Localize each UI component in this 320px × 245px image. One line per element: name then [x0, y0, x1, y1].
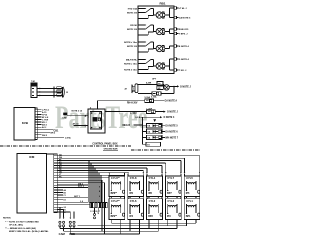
svg-text:BP2**: BP2** [111, 215, 118, 218]
breaker MR [157, 86, 164, 90]
KVB pin 1 [35, 108, 37, 110]
svg-text:BP1: BP1 [186, 215, 191, 218]
module outer box [88, 109, 105, 133]
wire drop [167, 219, 169, 225]
wire relay4 to pin [165, 48, 170, 50]
wire ladder 7 [57, 169, 143, 171]
svg-text:GA NOTE 5: GA NOTE 5 [165, 125, 178, 128]
lamp M1 [164, 85, 169, 90]
wire relay1 to pin [165, 14, 170, 16]
wire bottom path [138, 93, 152, 95]
svg-text:GA NOTE 6: GA NOTE 6 [179, 17, 191, 20]
wire ICM to CAM b [57, 209, 63, 211]
ICM stub D3 [57, 199, 63, 201]
bus wire B [57, 182, 104, 184]
screw [99, 112, 101, 114]
wire relay3 to pin [165, 31, 170, 33]
svg-text:A2 J: A2 J [42, 126, 46, 129]
wire arrow row2 [164, 111, 166, 113]
svg-text:** — BREAK AVG 2s AND (AN): ** — BREAK AVG 2s AND (AN) [5, 227, 36, 230]
wire ladder 2 [57, 157, 184, 159]
ICM wire MA 5 [57, 184, 88, 186]
svg-text:CYL8: CYL8 [130, 176, 137, 180]
svg-text:WH NOTE 7: WH NOTE 7 [165, 137, 178, 139]
pin P2 [174, 16, 177, 18]
svg-text:HYD 10A: HYD 10A [128, 7, 138, 10]
plug column 2 [129, 197, 131, 199]
KVB pin 2 [35, 111, 37, 113]
svg-text:OF (CB. JAN).: OF (CB. JAN). [9, 223, 24, 226]
svg-text:CIR 5K: CIR 5K [130, 25, 138, 27]
module feed connector [63, 113, 67, 116]
ICM pin 1 [54, 155, 57, 157]
plug column 3 [148, 197, 150, 199]
svg-text:T BPS. J: T BPS. J [179, 34, 188, 36]
wire ICM to CBB a [57, 211, 70, 213]
wire bottom bus 1 [111, 222, 196, 224]
wire lamp out [169, 85, 174, 87]
wire drop [120, 219, 122, 234]
module wire L2 [73, 125, 88, 127]
wire CBB b feed [57, 211, 74, 213]
wire diode feed [143, 116, 160, 118]
svg-text:GA NOTE A: GA NOTE A [165, 100, 178, 103]
KVB pin 7 [35, 124, 37, 126]
KVB pin 5 [35, 119, 37, 121]
connector CBB [69, 213, 71, 217]
KVB pin 9 [35, 129, 37, 131]
wire drop [157, 219, 159, 231]
svg-text:D3: D3 [64, 200, 66, 202]
wire feed strip 1 [88, 161, 90, 203]
svg-text:NOTES:: NOTES: [3, 218, 11, 220]
wire jog [163, 83, 164, 85]
wire ladder 3 [57, 160, 181, 162]
ICM pin 15 [54, 189, 57, 191]
wire ladder 10 [57, 177, 109, 179]
module inner box [90, 112, 101, 130]
module core [93, 117, 98, 121]
ICM pin 3 [54, 160, 57, 162]
wire feed strip 3 [92, 166, 94, 203]
ICM wire FCC 1 [57, 187, 88, 189]
diode D1 [143, 125, 147, 127]
boundary dash left [0, 145, 131, 147]
wire relay0 to pin [165, 14, 170, 16]
ICM wire NOT 1 [57, 196, 88, 198]
svg-text:J- 53V: J- 53V [130, 113, 137, 115]
svg-text:NOTE b 10m: NOTE b 10m [124, 63, 137, 65]
boundary dash right [131, 149, 200, 151]
fuse S-30A [152, 92, 161, 96]
wire drop [110, 219, 112, 223]
svg-text:B NOTE 4: B NOTE 4 [179, 45, 190, 48]
fuse F-OPT [157, 82, 163, 85]
solenoid CYL2 [147, 199, 163, 220]
svg-text:NOTE 3 14: NOTE 3 14 [72, 110, 83, 113]
connector P2 circles [94, 208, 96, 214]
screw [99, 127, 101, 129]
ICM pin 7 [54, 169, 57, 171]
svg-text:CYL2: CYL2 [149, 199, 156, 203]
module top pin B [96, 101, 98, 109]
svg-text:KVB: KVB [22, 121, 28, 125]
wire feed strip 2 [90, 163, 92, 202]
wire bottom bus 3 [60, 228, 177, 230]
svg-text:J2: J2 [66, 92, 68, 94]
wire bottom bus 2 [78, 225, 187, 227]
ICM pin 22 [54, 206, 57, 208]
connector block C.RD [31, 83, 37, 98]
bus wire A [57, 179, 102, 181]
connector J1 wires [37, 88, 62, 90]
ICM pin 6 [54, 167, 57, 169]
wire drop [195, 219, 197, 223]
ICM pin 4 [54, 162, 57, 164]
svg-text:AT.1 4: AT.1 4 [73, 122, 80, 125]
wire drop [176, 219, 178, 228]
plug column 4 [167, 197, 169, 199]
diode D2 [143, 131, 147, 133]
ICM pin 11 [54, 179, 57, 181]
svg-text:18: 18 [57, 89, 59, 91]
svg-text:4: 4 [99, 190, 100, 193]
svg-text:GA NOTE 6: GA NOTE 6 [165, 131, 178, 134]
svg-text:5-30A: 5-30A [151, 96, 157, 99]
solenoid CYL3 [165, 199, 181, 220]
screw [91, 112, 93, 114]
svg-text:NOT 1: NOT 1 [74, 196, 81, 198]
bus vertical [142, 117, 144, 144]
wire relay6 to pin [165, 65, 170, 67]
svg-text:J (P4): J (P4) [65, 136, 71, 139]
screw [91, 127, 93, 129]
pin P4 [174, 32, 177, 34]
wire feed strip 6 [98, 173, 100, 203]
svg-text:T NO. J: T NO. J [179, 70, 187, 72]
svg-text:MAJYN RL: MAJYN RL [126, 58, 138, 61]
svg-text:2: 2 [99, 186, 100, 188]
svg-text:CYL6**: CYL6** [111, 176, 120, 180]
svg-text:C.RD: C.RD [62, 117, 67, 119]
svg-text:* — NOTE 2 IS NOT CONNECTED: * — NOTE 2 IS NOT CONNECTED [5, 221, 39, 223]
wire CBB p1 to bus [69, 229, 71, 234]
wire drop [139, 219, 141, 234]
relay K3 [138, 41, 165, 52]
wire bottom bus 4 [64, 230, 159, 232]
ICM stub A4 [57, 189, 63, 191]
wire relay2 to pin [165, 31, 170, 33]
wire ladder 8 [57, 172, 128, 174]
wire ladder 5 [57, 165, 162, 167]
wire drop [148, 219, 150, 228]
pin P3 [174, 28, 177, 30]
svg-text:CYL1: CYL1 [186, 199, 193, 203]
connector oval J3 [135, 84, 138, 93]
ICM pin 24 [54, 211, 57, 213]
pin P6 [174, 58, 177, 60]
ICM box [17, 154, 47, 214]
svg-text:18: 18 [57, 92, 59, 94]
relay box RB1 outline [138, 6, 174, 74]
svg-text:CYL3: CYL3 [167, 199, 174, 203]
watermark [55, 100, 147, 136]
KVB box [14, 107, 35, 140]
ICM pin 21 [54, 204, 57, 206]
wire ladder 6 [57, 167, 147, 169]
ICM pin 19 [54, 199, 57, 201]
ICM stub G2 [57, 206, 63, 208]
ICM pin 20 [54, 201, 57, 203]
wire ladder 1 [57, 155, 200, 157]
KVB pin 10 [35, 131, 37, 133]
svg-text:CYL2**: CYL2** [111, 199, 120, 203]
svg-text:NOTE 3 B: NOTE 3 B [127, 46, 138, 48]
pin P1 [174, 7, 177, 9]
svg-text:A-MR: A-MR [146, 82, 152, 85]
svg-text:CYL6: CYL6 [130, 199, 137, 203]
wire drop [186, 219, 188, 225]
svg-text:18: 18 [57, 96, 59, 98]
solenoid CYL6 [128, 199, 144, 220]
ICM pin 10 [54, 177, 57, 179]
KVB pin 6 [35, 121, 37, 123]
wire ICM to CAM a [57, 206, 60, 208]
solenoid CYL5 [184, 176, 200, 197]
svg-text:RB1: RB1 [159, 2, 165, 6]
KVB pin 11 [35, 134, 37, 136]
wire to strip [57, 204, 89, 206]
svg-text:MEG B: MEG B [123, 125, 131, 127]
ICM stub C1 [57, 194, 63, 196]
svg-text:CYL4: CYL4 [149, 176, 156, 180]
wire CAM p2 to bus [63, 229, 65, 232]
wire bottom bus 5 [70, 233, 139, 235]
plug column 5 [186, 197, 188, 199]
wire feed strip 7 [100, 175, 102, 202]
wire fuse row 1 [97, 100, 144, 102]
relay K2 [138, 24, 165, 35]
ICM pin 9 [54, 174, 57, 176]
solenoid CYL2** [109, 199, 125, 220]
svg-text:CONTROL PANEL BOX: CONTROL PANEL BOX [92, 142, 118, 145]
svg-text:NOTE b 10m: NOTE b 10m [124, 42, 137, 44]
svg-text:ICM: ICM [29, 155, 35, 159]
ICM pin 18 [54, 196, 57, 198]
ICM wire J 4 [57, 201, 88, 203]
svg-text:O NOTE 4: O NOTE 4 [164, 116, 175, 119]
diode D3 [143, 136, 147, 138]
svg-text:BP2: BP2 [148, 215, 153, 218]
svg-text:O NOTE J: O NOTE J [167, 112, 178, 114]
svg-text:NOTE 3 B: NOTE 3 B [127, 12, 138, 14]
ICM link line [47, 153, 54, 155]
svg-text:BP7: BP7 [167, 192, 172, 195]
svg-text:6: 6 [99, 196, 100, 198]
connector CAM [59, 213, 61, 217]
svg-text:CYL5: CYL5 [186, 176, 193, 180]
svg-text:D NOTE 4: D NOTE 4 [179, 58, 190, 61]
ICM pin 23 [54, 209, 57, 211]
ICM pin 14 [54, 187, 57, 189]
svg-text:KEEP LYNN ON G.AL. (N EA.) LAB: KEEP LYNN ON G.AL. (N EA.) LAB/TAL [9, 230, 49, 233]
wire drop [129, 219, 131, 231]
wire relay5 to pin [165, 65, 170, 67]
ICM pin 2 [54, 157, 57, 159]
solenoid CYL6** [109, 176, 125, 197]
wire ladder 4 [57, 162, 166, 164]
KVB pin strip [35, 108, 37, 140]
KVB pin 4 [35, 116, 37, 118]
ICM stub J3 [57, 211, 63, 213]
module wire L1 [67, 115, 88, 117]
svg-text:C1: C1 [64, 195, 66, 197]
arrow P mark [153, 119, 156, 122]
wire feed strip 5 [96, 170, 98, 202]
ICM pin 5 [54, 165, 57, 167]
terminal strip TB1 [90, 203, 92, 208]
svg-text:FCC 1: FCC 1 [78, 186, 85, 188]
svg-text:NOTE 3 B: NOTE 3 B [127, 29, 138, 31]
svg-text:NOTE 3 10m: NOTE 3 10m [124, 69, 137, 71]
svg-text:O NOTE J: O NOTE J [180, 86, 191, 88]
relay K1 [138, 8, 165, 19]
KVB pin 3 [35, 113, 37, 115]
pin P5 [174, 45, 177, 47]
wire fuse row 2 [105, 111, 147, 113]
ICM pin 16 [54, 191, 57, 193]
solenoid CYL4 [147, 176, 163, 197]
relay K4 [138, 59, 165, 70]
solenoid CYL8 [128, 176, 144, 197]
module top pin A [90, 107, 92, 109]
wire feed strip 4 [94, 168, 96, 203]
ICM pin 8 [54, 172, 57, 174]
svg-text:RH-H 20V: RH-H 20V [127, 102, 138, 104]
svg-text:CYL7: CYL7 [167, 176, 174, 180]
KVB pin 12 [35, 136, 37, 138]
solenoid CYL7 [165, 176, 181, 197]
plug column 1 [111, 197, 113, 199]
svg-text:BP6**: BP6** [111, 192, 118, 195]
pin P7 [174, 69, 177, 71]
wire top path [138, 83, 157, 85]
svg-text:RGB J/15: RGB J/15 [179, 29, 189, 31]
ICM pin 17 [54, 194, 57, 196]
ICM stub H1 [57, 209, 63, 211]
ICM stub B2 [57, 191, 63, 193]
svg-text:LT 40. J: LT 40. J [179, 7, 188, 10]
svg-text:CAM: CAM [59, 232, 66, 236]
ICM pin strip [54, 154, 57, 213]
wire ladder 9 [57, 174, 124, 176]
svg-text:AT.L-N: AT.L-N [42, 116, 49, 119]
KVB pin 8 [35, 126, 37, 128]
resistor block D4 [143, 143, 146, 145]
connector bracket CN2 [131, 85, 133, 94]
svg-text:LG B: LG B [135, 117, 140, 119]
ICM pin 13 [54, 184, 57, 186]
ICM pin 12 [54, 182, 57, 184]
solenoid CYL1 [184, 199, 200, 220]
